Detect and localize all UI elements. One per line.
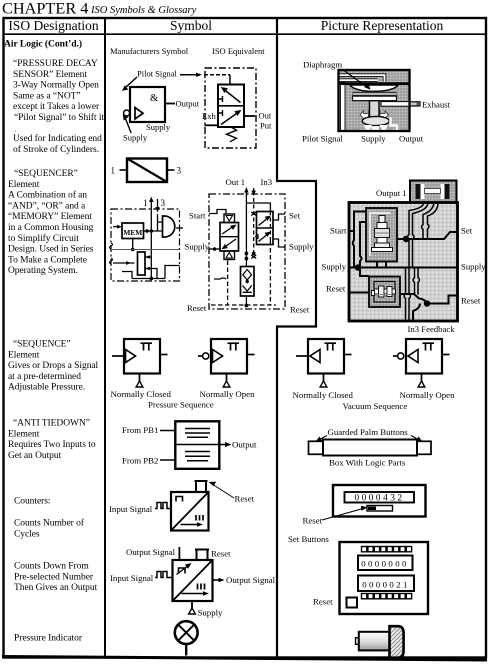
svg-text:Normally Closed: Normally Closed	[111, 389, 172, 399]
svg-text:Element: Element	[8, 180, 40, 190]
svg-text:Counts Down From: Counts Down From	[14, 562, 89, 572]
svg-text:Start: Start	[189, 211, 206, 221]
svg-text:Supply: Supply	[123, 133, 148, 143]
svg-text:3: 3	[177, 166, 182, 176]
svg-text:Output: Output	[232, 440, 257, 450]
svg-text:Output: Output	[399, 134, 424, 144]
svg-text:3: 3	[161, 198, 166, 208]
svg-text:Normally Closed: Normally Closed	[293, 390, 354, 400]
svg-text:Counts Number of: Counts Number of	[14, 518, 85, 529]
svg-text:Input Signal: Input Signal	[109, 504, 153, 514]
svg-text:Supply: Supply	[322, 262, 347, 272]
svg-text:except it Takes a lower: except it Takes a lower	[13, 102, 100, 112]
svg-text:Pilot Signal: Pilot Signal	[302, 134, 343, 144]
svg-text:Requires Two Inputs to: Requires Two Inputs to	[8, 440, 96, 450]
svg-text:From PB2: From PB2	[122, 456, 158, 466]
svg-text:0000000: 0000000	[361, 559, 409, 569]
svg-text:Counters:: Counters:	[14, 497, 51, 507]
svg-text:In3: In3	[261, 177, 273, 187]
svg-text:Input Signal: Input Signal	[110, 573, 154, 583]
svg-text:&: &	[150, 93, 158, 104]
svg-text:Exhaust: Exhaust	[422, 100, 451, 110]
svg-text:“PRESSURE DECAY: “PRESSURE DECAY	[13, 59, 98, 69]
svg-text:Design. Used in Series: Design. Used in Series	[8, 245, 94, 255]
svg-text:.: .	[15, 126, 17, 134]
svg-text:Start: Start	[330, 226, 347, 236]
svg-text:Operating System.: Operating System.	[8, 266, 78, 276]
svg-text:at a pre-determined: at a pre-determined	[8, 372, 81, 382]
svg-text:Vacuum Sequence: Vacuum Sequence	[343, 401, 408, 411]
svg-text:“MEMORY” Element: “MEMORY” Element	[8, 212, 92, 222]
svg-text:Same as a “NOT”: Same as a “NOT”	[13, 91, 81, 101]
svg-text:Box With Logic Parts: Box With Logic Parts	[329, 458, 406, 468]
svg-text:0000432: 0000432	[354, 494, 404, 504]
svg-text:Normally Open: Normally Open	[400, 390, 456, 400]
svg-text:to Simplify Circuit: to Simplify Circuit	[8, 233, 79, 244]
svg-text:Output Signal: Output Signal	[226, 575, 276, 585]
svg-text:Adjustable Pressure.: Adjustable Pressure.	[8, 383, 85, 393]
svg-text:Out 1: Out 1	[226, 177, 246, 187]
svg-text:Air Logic (Cont’d.): Air Logic (Cont’d.)	[4, 39, 82, 50]
svg-text:Reset: Reset	[313, 597, 333, 607]
svg-text:Reset: Reset	[303, 516, 323, 526]
svg-text:ISO Symbols & Glossary: ISO Symbols & Glossary	[90, 5, 197, 16]
svg-text:Reset: Reset	[290, 305, 310, 315]
svg-text:of Stroke of Cylinders.: of Stroke of Cylinders.	[13, 144, 99, 155]
svg-text:Reset: Reset	[461, 296, 481, 306]
svg-text:Supply: Supply	[185, 242, 210, 252]
svg-text:Reset: Reset	[326, 284, 346, 294]
svg-text:A Combination of an: A Combination of an	[8, 190, 87, 201]
svg-text:Element: Element	[8, 350, 40, 360]
svg-text:Used for Indicating end: Used for Indicating end	[13, 133, 102, 144]
svg-text:“SEQUENCE”: “SEQUENCE”	[13, 340, 71, 350]
svg-text:Element: Element	[8, 429, 40, 439]
svg-text:Supply: Supply	[289, 242, 314, 252]
svg-text:3-Way Normally Open: 3-Way Normally Open	[13, 81, 99, 91]
svg-text:Then Gives an Output: Then Gives an Output	[14, 583, 98, 593]
svg-text:CHAPTER 4: CHAPTER 4	[2, 0, 88, 18]
svg-text:Output: Output	[176, 99, 200, 109]
svg-text:MEM: MEM	[123, 228, 142, 237]
svg-text:Picture Representation: Picture Representation	[321, 18, 444, 33]
svg-text:Gives or Drops a Signal: Gives or Drops a Signal	[8, 361, 99, 371]
svg-text:Reset: Reset	[211, 549, 231, 559]
svg-text:“AND”, “OR” and a: “AND”, “OR” and a	[8, 201, 86, 211]
svg-text:Pressure Sequence: Pressure Sequence	[148, 400, 214, 410]
svg-text:In3 Feedback: In3 Feedback	[408, 324, 456, 334]
svg-text:“SEQUENCER”: “SEQUENCER”	[14, 169, 78, 179]
svg-text:From PB1: From PB1	[122, 425, 158, 435]
svg-text:Set: Set	[461, 226, 473, 236]
svg-text:Reset: Reset	[235, 494, 255, 504]
svg-text:Guarded Palm Buttons: Guarded Palm Buttons	[328, 427, 409, 437]
svg-text:Out: Out	[259, 111, 272, 121]
svg-text:Put: Put	[260, 121, 272, 131]
svg-text:Supply: Supply	[198, 608, 224, 618]
svg-text:Diaphragm: Diaphragm	[303, 60, 342, 70]
svg-text:Pre-selected Number: Pre-selected Number	[14, 572, 94, 582]
svg-text:ISO Equivalent: ISO Equivalent	[212, 46, 265, 56]
svg-text:Manufacturers Symbol: Manufacturers Symbol	[110, 46, 189, 56]
svg-text:Set Buttons: Set Buttons	[288, 534, 329, 544]
svg-text:SENSOR” Element: SENSOR” Element	[13, 70, 87, 80]
svg-text:Supply: Supply	[146, 122, 171, 132]
svg-text:Cycles: Cycles	[14, 530, 40, 540]
svg-text:0000021: 0000021	[362, 580, 410, 590]
svg-text:Reset: Reset	[187, 303, 207, 313]
svg-text:“ANTI TIEDOWN”: “ANTI TIEDOWN”	[13, 419, 90, 429]
svg-text:Get an Output: Get an Output	[8, 451, 62, 461]
svg-text:Set: Set	[289, 211, 301, 221]
svg-text:Exh: Exh	[202, 111, 216, 121]
svg-text:Symbol: Symbol	[170, 18, 212, 33]
svg-text:Normally Open: Normally Open	[200, 389, 256, 399]
svg-text:Output 1: Output 1	[376, 188, 407, 198]
svg-text:Output Signal: Output Signal	[126, 547, 176, 557]
svg-text:Supply: Supply	[461, 262, 486, 272]
svg-text:Pilot Signal: Pilot Signal	[137, 69, 178, 79]
svg-text:Supply: Supply	[361, 134, 386, 144]
svg-text:Pressure Indicator: Pressure Indicator	[14, 633, 83, 643]
svg-text:1: 1	[111, 166, 116, 176]
svg-text:in a Common Housing: in a Common Housing	[8, 223, 94, 233]
svg-text:“Pilot Signal” to Shift it: “Pilot Signal” to Shift it	[14, 112, 104, 123]
svg-text:ISO Designation: ISO Designation	[8, 18, 99, 33]
svg-text:To Make a Complete: To Make a Complete	[8, 255, 87, 265]
svg-text:1: 1	[143, 198, 148, 208]
